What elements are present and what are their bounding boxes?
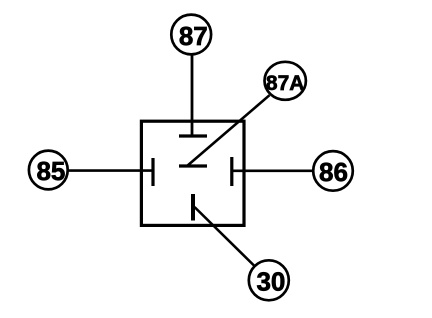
pin 30 common armature pivot bar — [179, 164, 207, 167]
wire: lead from terminal 85 circle to pin 85 — [69, 169, 153, 172]
svg-text:87A: 87A — [266, 72, 305, 95]
wire: diagonal lead from pin 30 to terminal 30 circle — [195, 207, 255, 266]
node circle for terminal 87 — [171, 15, 211, 55]
pin 85 coil terminal bar — [151, 158, 154, 186]
pin 87 contact bar (normally open contact) — [179, 134, 207, 137]
node circle for terminal 85 — [29, 151, 68, 190]
svg-text:85: 85 — [36, 156, 65, 186]
relay body outline K1 — [141, 121, 244, 225]
pin 86 coil terminal bar — [230, 157, 233, 186]
pin 30 terminal stub bar — [191, 194, 195, 221]
armature switch blade toward 87A (normally closed) — [187, 95, 270, 166]
svg-text:30: 30 — [256, 267, 285, 297]
svg-text:86: 86 — [319, 157, 348, 187]
wire: lead from terminal 87 circle to pin 87 — [191, 55, 194, 136]
node circle for terminal 30 — [249, 260, 289, 300]
node circle for terminal 87A — [265, 62, 306, 100]
node circle for terminal 86 — [313, 151, 353, 191]
svg-text:87: 87 — [179, 21, 208, 51]
wire: lead from pin 86 to terminal 86 circle — [233, 170, 312, 173]
